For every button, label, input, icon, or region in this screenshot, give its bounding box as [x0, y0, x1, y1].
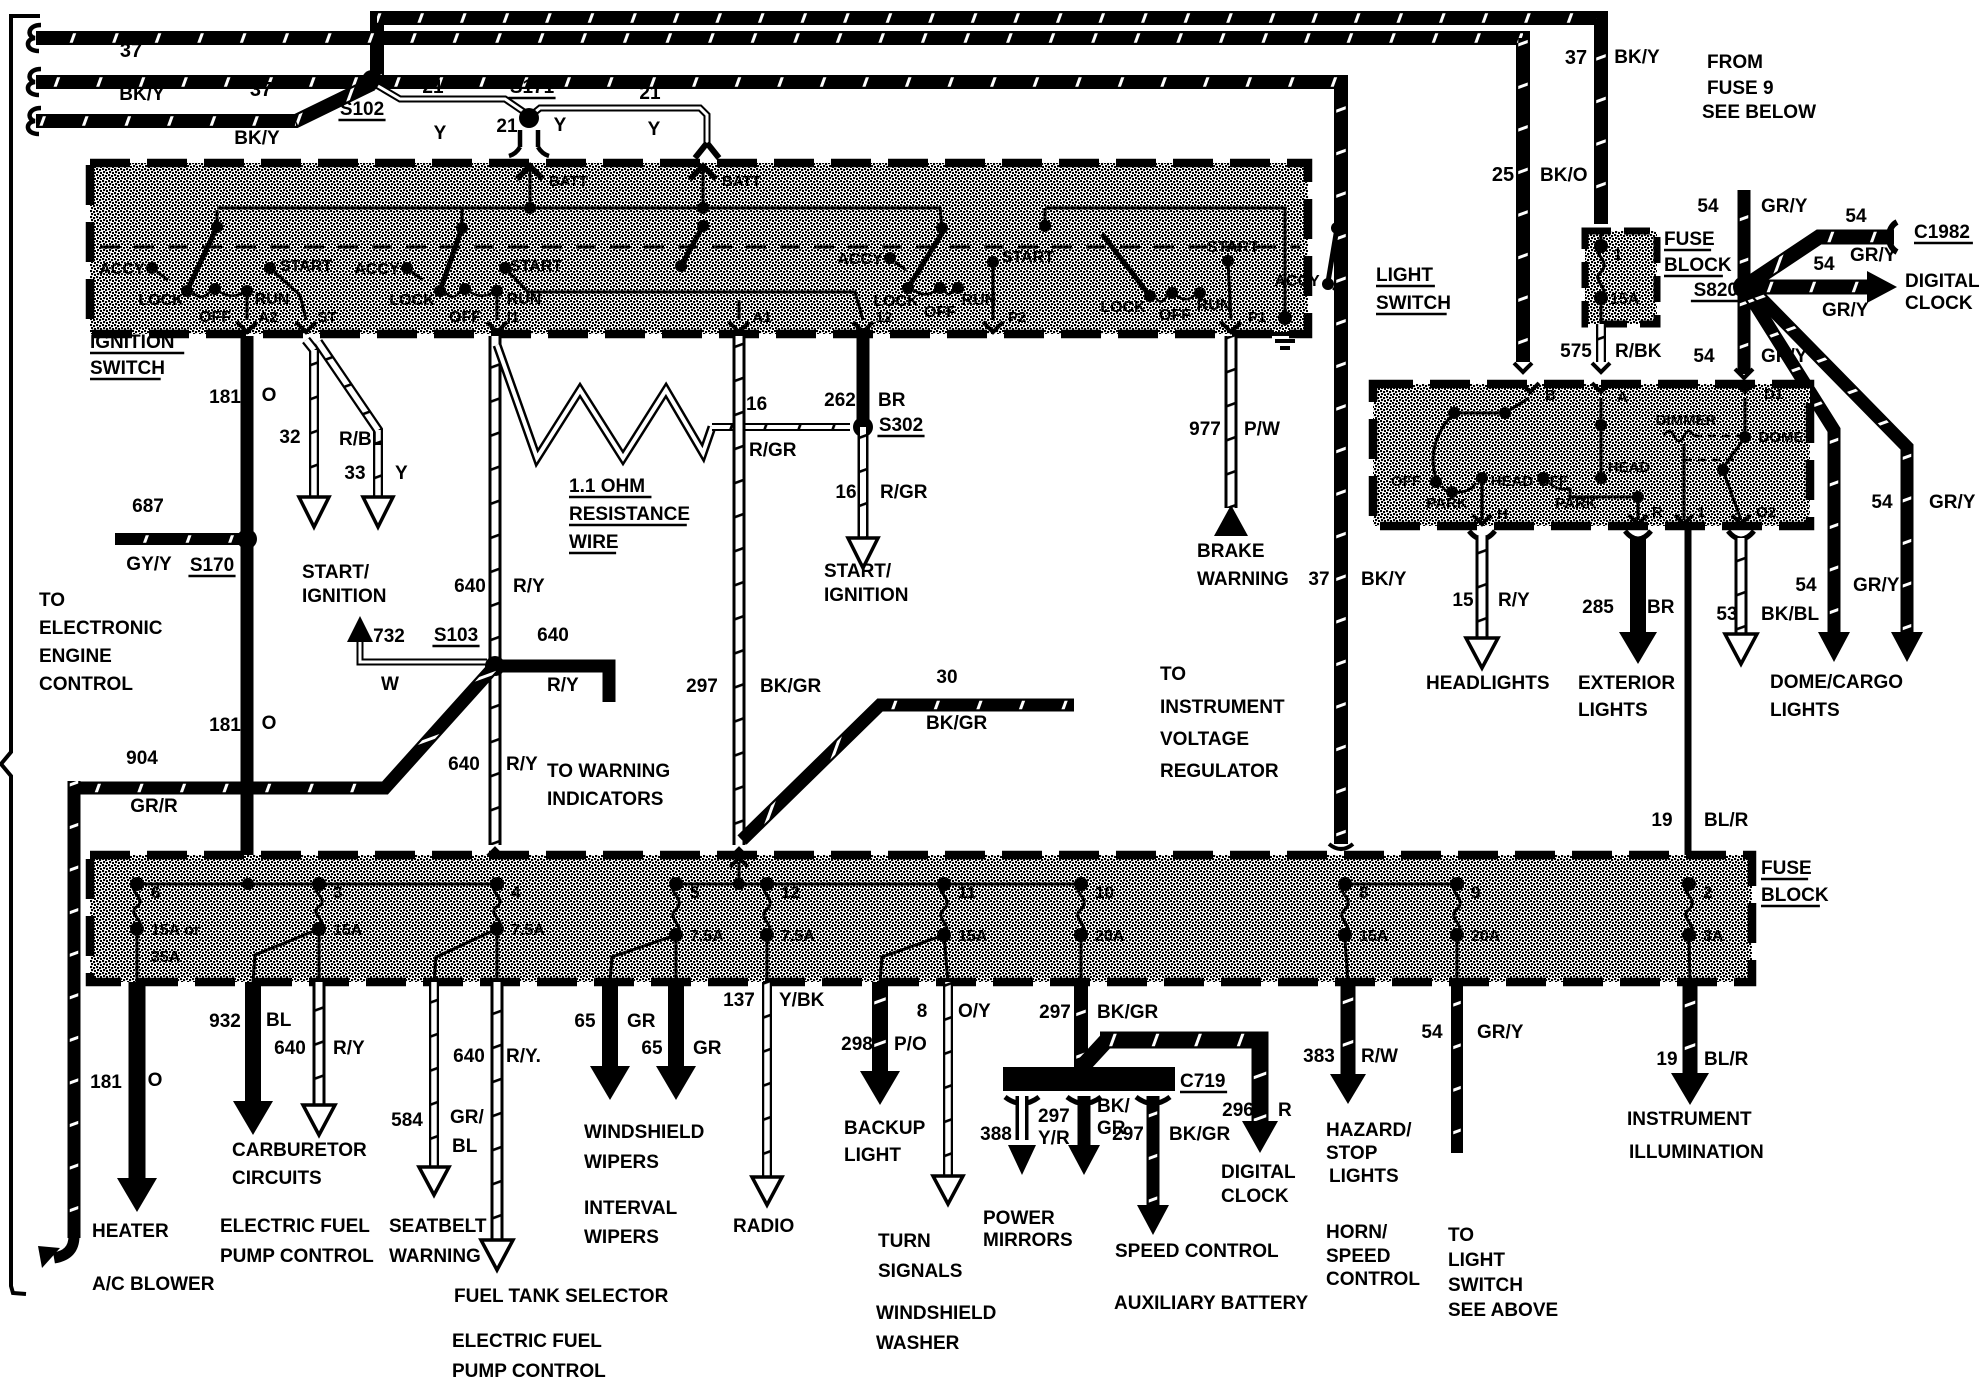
svg-text:932: 932 [209, 1011, 241, 1032]
svg-text:BK/BL: BK/BL [1761, 604, 1819, 625]
svg-text:BK/Y: BK/Y [1614, 47, 1660, 68]
svg-text:ACCY: ACCY [99, 261, 145, 278]
svg-text:S170: S170 [190, 555, 234, 576]
svg-text:HEAD: HEAD [1491, 473, 1534, 490]
svg-text:11: 11 [958, 883, 976, 902]
svg-text:H: H [1497, 506, 1508, 523]
svg-text:BL: BL [452, 1136, 478, 1157]
svg-text:SEATBELT: SEATBELT [389, 1216, 487, 1237]
svg-text:297: 297 [686, 676, 718, 697]
svg-text:LOCK: LOCK [873, 293, 919, 310]
svg-text:LIGHT: LIGHT [844, 1145, 901, 1166]
svg-text:296: 296 [1222, 1100, 1254, 1121]
svg-text:2: 2 [1703, 883, 1712, 902]
svg-text:R: R [1652, 504, 1663, 521]
svg-text:30: 30 [936, 667, 957, 688]
svg-text:START/: START/ [302, 562, 370, 583]
svg-text:IGNITION: IGNITION [824, 585, 908, 606]
svg-text:RUN: RUN [255, 291, 290, 308]
svg-text:LOCK: LOCK [389, 292, 435, 309]
svg-text:IGNITION: IGNITION [302, 586, 386, 607]
svg-text:53: 53 [1716, 604, 1737, 625]
svg-text:OFF: OFF [1538, 473, 1568, 490]
svg-text:R/GR: R/GR [749, 440, 797, 461]
svg-text:Y: Y [395, 463, 408, 484]
svg-text:BK/GR: BK/GR [760, 676, 822, 697]
svg-text:BATT: BATT [549, 173, 588, 190]
svg-text:15A: 15A [1359, 928, 1389, 945]
svg-text:C1982: C1982 [1914, 222, 1970, 243]
svg-text:HAZARD/: HAZARD/ [1326, 1120, 1412, 1141]
svg-text:383: 383 [1303, 1046, 1335, 1067]
svg-text:R: R [1278, 1100, 1292, 1121]
svg-text:25: 25 [1492, 164, 1514, 186]
svg-text:BATT: BATT [722, 173, 761, 190]
svg-text:FUSE: FUSE [1664, 229, 1715, 250]
svg-text:21: 21 [496, 116, 518, 137]
svg-text:285: 285 [1582, 597, 1614, 618]
svg-text:WASHER: WASHER [876, 1333, 960, 1354]
svg-text:54: 54 [1845, 206, 1867, 227]
svg-text:START/: START/ [824, 561, 892, 582]
svg-text:904: 904 [126, 748, 158, 769]
svg-text:9: 9 [1471, 883, 1480, 902]
svg-text:A: A [1617, 389, 1628, 406]
svg-text:732: 732 [373, 626, 405, 647]
svg-text:4: 4 [511, 883, 521, 902]
svg-text:21: 21 [639, 83, 661, 104]
svg-text:65: 65 [574, 1011, 596, 1032]
svg-text:Y: Y [648, 119, 661, 140]
svg-text:SPEED: SPEED [1326, 1246, 1390, 1267]
svg-text:19: 19 [1656, 1049, 1677, 1070]
svg-text:A/C BLOWER: A/C BLOWER [92, 1274, 215, 1295]
svg-text:WIPERS: WIPERS [584, 1152, 659, 1173]
svg-text:SEE BELOW: SEE BELOW [1702, 102, 1816, 123]
svg-text:PUMP CONTROL: PUMP CONTROL [220, 1246, 374, 1267]
svg-text:CONTROL: CONTROL [1326, 1269, 1420, 1290]
svg-text:181: 181 [90, 1072, 122, 1093]
svg-text:BK/GR: BK/GR [1097, 1002, 1159, 1023]
svg-text:WARNING: WARNING [389, 1246, 481, 1267]
svg-text:START: START [510, 258, 562, 275]
svg-text:54: 54 [1697, 196, 1719, 217]
svg-text:181: 181 [209, 715, 241, 736]
svg-text:P2: P2 [1008, 309, 1026, 326]
svg-text:388: 388 [980, 1124, 1012, 1145]
svg-text:SWITCH: SWITCH [1376, 293, 1451, 314]
svg-text:BRAKE: BRAKE [1197, 541, 1265, 562]
svg-text:15A: 15A [333, 922, 363, 939]
svg-text:TO WARNING: TO WARNING [547, 761, 670, 782]
svg-text:RESISTANCE: RESISTANCE [569, 504, 690, 525]
svg-text:54: 54 [1421, 1022, 1443, 1043]
svg-text:RUN: RUN [507, 291, 542, 308]
svg-text:R/Y: R/Y [547, 675, 579, 696]
svg-text:LOCK: LOCK [138, 292, 184, 309]
svg-text:R/GR: R/GR [880, 482, 928, 503]
svg-text:DIMMER: DIMMER [1656, 412, 1717, 429]
svg-text:GR/Y: GR/Y [1929, 492, 1976, 513]
svg-text:HEAD: HEAD [1608, 459, 1651, 476]
svg-text:RUN: RUN [1197, 297, 1232, 314]
svg-text:640: 640 [453, 1046, 485, 1067]
svg-text:CLOCK: CLOCK [1221, 1186, 1289, 1207]
svg-text:BLOCK: BLOCK [1761, 885, 1829, 906]
svg-text:ELECTRIC FUEL: ELECTRIC FUEL [220, 1216, 370, 1237]
svg-text:LIGHTS: LIGHTS [1578, 700, 1648, 721]
svg-text:P/O: P/O [894, 1034, 927, 1055]
svg-text:1: 1 [1697, 504, 1705, 521]
svg-text:1: 1 [1613, 245, 1622, 264]
svg-text:Y: Y [554, 115, 567, 136]
svg-text:575: 575 [1560, 341, 1592, 362]
svg-text:CLOCK: CLOCK [1905, 293, 1973, 314]
svg-text:O: O [262, 385, 277, 406]
svg-text:12: 12 [876, 309, 893, 326]
svg-text:6: 6 [151, 883, 160, 902]
svg-text:A1: A1 [752, 309, 771, 326]
svg-text:LIGHTS: LIGHTS [1770, 700, 1840, 721]
svg-text:B: B [1545, 387, 1556, 404]
svg-text:ACCY: ACCY [354, 261, 400, 278]
svg-text:10: 10 [1095, 883, 1114, 902]
svg-text:GR: GR [693, 1038, 722, 1059]
svg-text:HEATER: HEATER [92, 1221, 169, 1242]
svg-text:R/Y: R/Y [333, 1038, 365, 1059]
svg-text:AUXILIARY BATTERY: AUXILIARY BATTERY [1114, 1293, 1309, 1314]
svg-text:5: 5 [690, 883, 699, 902]
svg-text:GR/Y: GR/Y [1822, 300, 1869, 321]
svg-text:VOLTAGE: VOLTAGE [1160, 729, 1249, 750]
svg-text:OFF: OFF [1391, 473, 1421, 490]
svg-text:S820: S820 [1694, 280, 1738, 301]
svg-text:BK/Y: BK/Y [1361, 569, 1407, 590]
svg-text:640: 640 [274, 1038, 306, 1059]
svg-text:3: 3 [333, 883, 342, 902]
svg-text:ENGINE: ENGINE [39, 646, 112, 667]
svg-text:SIGNALS: SIGNALS [878, 1261, 962, 1282]
svg-text:262: 262 [824, 390, 856, 411]
svg-text:65: 65 [641, 1038, 663, 1059]
svg-text:BACKUP: BACKUP [844, 1118, 926, 1139]
svg-text:584: 584 [391, 1110, 423, 1131]
svg-text:P1: P1 [1248, 309, 1266, 326]
svg-text:Y/BK: Y/BK [779, 990, 825, 1011]
svg-text:7.5A: 7.5A [690, 928, 724, 945]
svg-text:TO: TO [1160, 664, 1186, 685]
svg-text:BL/R: BL/R [1704, 810, 1749, 831]
svg-text:15A: 15A [1610, 291, 1640, 308]
svg-text:181: 181 [209, 387, 241, 408]
svg-text:WINDSHIELD: WINDSHIELD [584, 1122, 704, 1143]
svg-text:PARK: PARK [1426, 495, 1468, 512]
svg-text:BK/O: BK/O [1540, 165, 1588, 186]
svg-text:REGULATOR: REGULATOR [1160, 761, 1279, 782]
svg-text:PUMP CONTROL: PUMP CONTROL [452, 1361, 606, 1382]
svg-text:BR: BR [878, 390, 906, 411]
svg-text:3A: 3A [1703, 928, 1724, 945]
svg-text:687: 687 [132, 496, 164, 517]
svg-text:W: W [381, 674, 399, 695]
svg-text:IGNITION: IGNITION [90, 332, 174, 353]
svg-text:POWER: POWER [983, 1208, 1055, 1229]
svg-text:BK/: BK/ [1097, 1096, 1130, 1117]
svg-text:BL/R: BL/R [1704, 1049, 1749, 1070]
svg-text:R/Y: R/Y [513, 576, 545, 597]
svg-text:GR/R: GR/R [130, 796, 178, 817]
svg-text:ACCY: ACCY [837, 251, 883, 268]
svg-text:START: START [280, 258, 332, 275]
svg-text:21: 21 [422, 77, 444, 98]
svg-text:ELECTRIC FUEL: ELECTRIC FUEL [452, 1331, 602, 1352]
svg-text:37: 37 [1308, 569, 1329, 590]
svg-text:A2: A2 [258, 309, 277, 326]
svg-text:SWITCH: SWITCH [90, 358, 165, 379]
svg-text:LIGHTS: LIGHTS [1329, 1166, 1399, 1187]
svg-text:HEADLIGHTS: HEADLIGHTS [1426, 673, 1550, 694]
svg-text:R/W: R/W [1361, 1046, 1398, 1067]
svg-text:54: 54 [1795, 575, 1817, 596]
svg-text:15A: 15A [958, 928, 988, 945]
svg-text:20A: 20A [1471, 928, 1501, 945]
svg-text:7.5A: 7.5A [511, 922, 545, 939]
svg-text:SWITCH: SWITCH [1448, 1275, 1523, 1296]
svg-text:BLOCK: BLOCK [1664, 255, 1732, 276]
svg-text:20A: 20A [1095, 928, 1125, 945]
svg-text:8: 8 [917, 1001, 928, 1022]
svg-text:RADIO: RADIO [733, 1216, 794, 1237]
svg-text:S302: S302 [879, 415, 923, 436]
svg-text:16: 16 [835, 482, 856, 503]
svg-text:297: 297 [1038, 1106, 1070, 1127]
svg-text:HORN/: HORN/ [1326, 1222, 1388, 1243]
svg-text:C719: C719 [1180, 1071, 1225, 1092]
svg-text:BK/GR: BK/GR [926, 713, 988, 734]
svg-text:640: 640 [537, 625, 569, 646]
svg-text:BK/GR: BK/GR [1169, 1124, 1231, 1145]
svg-text:ILLUMINATION: ILLUMINATION [1629, 1142, 1764, 1163]
svg-text:BK/Y: BK/Y [234, 128, 280, 149]
svg-text:8: 8 [1359, 883, 1368, 902]
svg-text:297: 297 [1039, 1002, 1071, 1023]
svg-text:CIRCUITS: CIRCUITS [232, 1168, 322, 1189]
svg-text:298: 298 [841, 1034, 873, 1055]
svg-text:TO: TO [1448, 1225, 1474, 1246]
svg-text:54: 54 [1693, 346, 1715, 367]
svg-text:DIGITAL: DIGITAL [1905, 271, 1980, 292]
svg-text:R/Y: R/Y [1498, 590, 1530, 611]
svg-text:640: 640 [454, 576, 486, 597]
svg-text:GR/Y: GR/Y [1853, 575, 1900, 596]
svg-text:TURN: TURN [878, 1231, 931, 1252]
svg-text:BL: BL [266, 1010, 292, 1031]
svg-text:EXTERIOR: EXTERIOR [1578, 673, 1675, 694]
svg-text:O/Y: O/Y [958, 1001, 991, 1022]
svg-text:O2: O2 [1756, 504, 1776, 521]
svg-text:FUSE 9: FUSE 9 [1707, 78, 1774, 99]
svg-text:S102: S102 [340, 99, 384, 120]
svg-text:S171: S171 [510, 77, 555, 98]
svg-text:35A: 35A [151, 949, 181, 966]
svg-text:R/BL: R/BL [339, 429, 384, 450]
svg-text:Y: Y [434, 123, 447, 144]
svg-text:ACCY: ACCY [1274, 273, 1320, 290]
svg-text:Y/R: Y/R [1038, 1128, 1070, 1149]
svg-text:R/BK: R/BK [1615, 341, 1662, 362]
svg-text:START: START [1002, 249, 1054, 266]
svg-text:SPEED CONTROL: SPEED CONTROL [1115, 1241, 1279, 1262]
svg-text:START: START [1207, 239, 1259, 256]
svg-text:ST: ST [317, 309, 336, 326]
svg-text:WIPERS: WIPERS [584, 1227, 659, 1248]
svg-text:MIRRORS: MIRRORS [983, 1230, 1073, 1251]
svg-text:OFF: OFF [449, 309, 481, 326]
svg-text:INTERVAL: INTERVAL [584, 1198, 678, 1219]
svg-text:D1: D1 [1764, 386, 1783, 403]
svg-text:FROM: FROM [1707, 52, 1763, 73]
svg-text:R/Y.: R/Y. [506, 1046, 541, 1067]
svg-text:S103: S103 [434, 625, 478, 646]
svg-text:I1: I1 [507, 309, 520, 326]
svg-text:FUSE: FUSE [1761, 858, 1812, 879]
svg-text:DOME/CARGO: DOME/CARGO [1770, 672, 1903, 693]
svg-text:CONTROL: CONTROL [39, 674, 133, 695]
svg-text:GY/Y: GY/Y [126, 554, 172, 575]
svg-text:INSTRUMENT: INSTRUMENT [1627, 1109, 1752, 1130]
svg-text:BR: BR [1647, 597, 1675, 618]
svg-text:STOP: STOP [1326, 1143, 1378, 1164]
svg-text:977: 977 [1189, 419, 1221, 440]
svg-text:LIGHT: LIGHT [1376, 265, 1433, 286]
svg-text:GR/Y: GR/Y [1761, 196, 1808, 217]
svg-text:GR: GR [627, 1011, 656, 1032]
svg-text:BK/Y: BK/Y [119, 84, 165, 105]
svg-text:RUN: RUN [962, 292, 997, 309]
svg-text:15A or: 15A or [151, 922, 200, 939]
svg-text:GR/Y: GR/Y [1477, 1022, 1524, 1043]
svg-text:O: O [148, 1070, 163, 1091]
svg-text:1.1 OHM: 1.1 OHM [569, 476, 645, 497]
svg-text:54: 54 [1871, 492, 1893, 513]
svg-text:15: 15 [1452, 590, 1474, 611]
svg-text:640: 640 [448, 754, 480, 775]
svg-text:GR/Y: GR/Y [1850, 245, 1897, 266]
svg-text:ELECTRONIC: ELECTRONIC [39, 618, 163, 639]
svg-text:37: 37 [250, 79, 272, 101]
svg-text:7.5A: 7.5A [781, 928, 815, 945]
svg-text:32: 32 [279, 427, 300, 448]
svg-text:TO: TO [39, 590, 65, 611]
svg-text:FUEL TANK SELECTOR: FUEL TANK SELECTOR [454, 1286, 669, 1307]
svg-text:OFF: OFF [1159, 307, 1191, 324]
svg-text:DOME: DOME [1759, 429, 1804, 446]
svg-text:WINDSHIELD: WINDSHIELD [876, 1303, 996, 1324]
svg-text:GR/: GR/ [450, 1107, 485, 1128]
svg-text:137: 137 [723, 990, 755, 1011]
svg-text:33: 33 [344, 463, 365, 484]
svg-text:WARNING: WARNING [1197, 569, 1289, 590]
svg-text:37: 37 [120, 40, 142, 62]
svg-text:297: 297 [1112, 1124, 1144, 1145]
svg-text:12: 12 [781, 883, 800, 902]
svg-text:19: 19 [1651, 810, 1672, 831]
svg-text:LIGHT: LIGHT [1448, 1250, 1505, 1271]
svg-text:INSTRUMENT: INSTRUMENT [1160, 697, 1285, 718]
svg-text:P/W: P/W [1244, 419, 1280, 440]
svg-text:CARBURETOR: CARBURETOR [232, 1140, 367, 1161]
svg-text:OFF: OFF [924, 304, 956, 321]
svg-text:INDICATORS: INDICATORS [547, 789, 663, 810]
svg-text:54: 54 [1813, 254, 1835, 275]
svg-text:LOCK: LOCK [1100, 299, 1146, 316]
svg-text:DIGITAL: DIGITAL [1221, 1162, 1296, 1183]
svg-text:WIRE: WIRE [569, 532, 619, 553]
svg-text:16: 16 [746, 394, 767, 415]
svg-text:OFF: OFF [199, 309, 231, 326]
svg-text:R/Y: R/Y [506, 754, 538, 775]
svg-text:37: 37 [1565, 47, 1587, 69]
svg-text:SEE ABOVE: SEE ABOVE [1448, 1300, 1558, 1321]
svg-text:O: O [262, 713, 277, 734]
